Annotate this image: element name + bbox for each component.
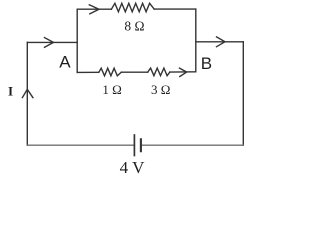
battery 4V positive plate <box>133 135 135 156</box>
svg-text:4 V: 4 V <box>120 158 145 177</box>
node B junction (right edge of parallel section) <box>195 9 197 72</box>
wire between 1 ohm and 3 ohm <box>121 71 147 73</box>
wire bottom left segment <box>27 144 134 146</box>
wire left vertical <box>26 42 28 145</box>
svg-text:1 Ω: 1 Ω <box>102 82 121 97</box>
wire right connector from node B <box>196 41 244 43</box>
wire bottom branch right segment <box>170 71 196 73</box>
resistor 3 ohm <box>148 68 170 76</box>
current arrow I (upward) <box>22 89 33 97</box>
wire top branch right segment <box>154 8 196 10</box>
svg-text:A: A <box>59 52 71 71</box>
arrow on right connector <box>217 37 226 47</box>
wire right vertical <box>242 42 244 145</box>
svg-text:8 Ω: 8 Ω <box>124 18 144 33</box>
wire bottom branch left segment <box>77 71 99 73</box>
arrow on bottom branch <box>180 68 187 76</box>
arrow on left connector <box>45 38 54 48</box>
node A junction (left edge of parallel section) <box>76 9 78 72</box>
battery 4V negative plate <box>140 139 142 151</box>
resistor 8 ohm <box>111 3 154 12</box>
wire top branch left segment <box>77 8 111 10</box>
arrow on top branch <box>89 5 99 14</box>
wire bottom right segment <box>141 144 243 146</box>
svg-text:3 Ω: 3 Ω <box>151 82 170 97</box>
resistor 1 ohm <box>99 68 122 76</box>
wire left connector to node A <box>27 41 77 43</box>
svg-text:I: I <box>8 84 13 99</box>
svg-text:B: B <box>201 54 212 73</box>
